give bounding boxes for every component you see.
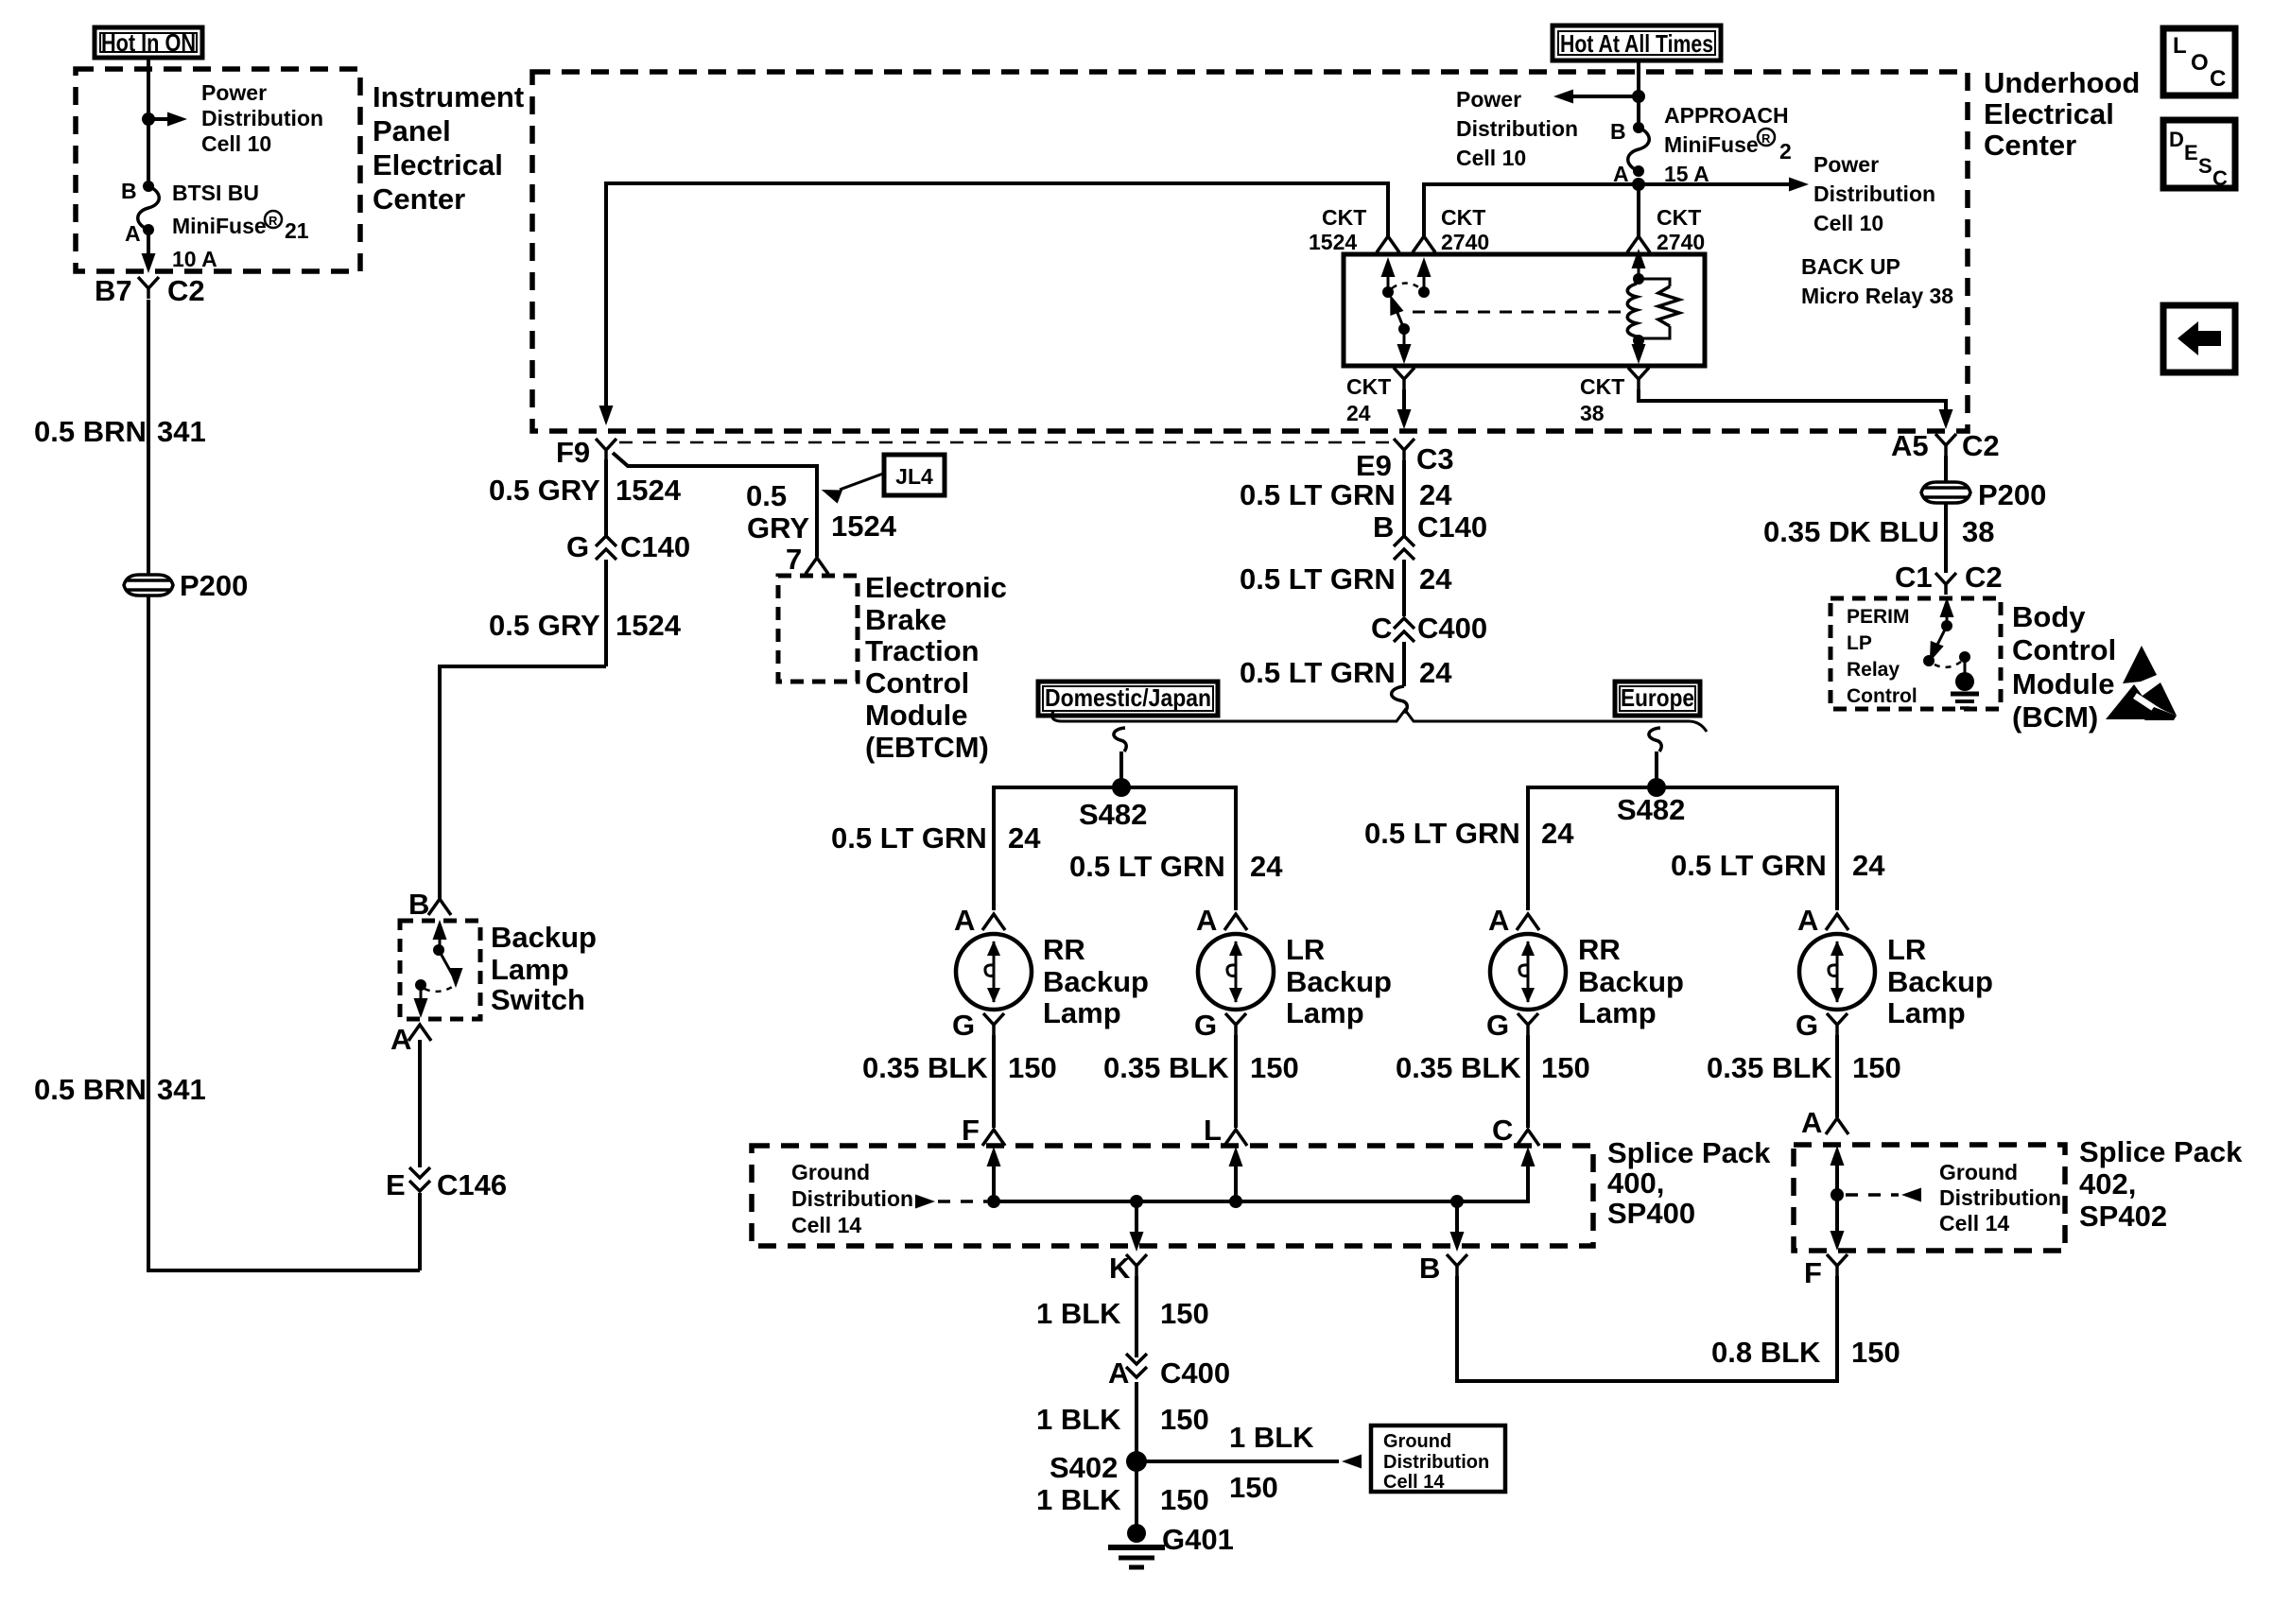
svg-text:Center: Center bbox=[373, 182, 465, 216]
arrow down to pin B bbox=[1450, 1201, 1465, 1252]
svg-text:2: 2 bbox=[1779, 139, 1792, 164]
svg-text:Backup: Backup bbox=[1043, 965, 1149, 998]
svg-text:0.5 LT GRN: 0.5 LT GRN bbox=[1364, 817, 1520, 850]
svg-text:24: 24 bbox=[1419, 478, 1452, 511]
svg-text:0.5 LT GRN: 0.5 LT GRN bbox=[1671, 849, 1827, 882]
svg-text:2740: 2740 bbox=[1657, 230, 1705, 254]
svg-text:341: 341 bbox=[157, 415, 206, 448]
pass-through grommet P200 (right) bbox=[1921, 478, 2046, 511]
svg-text:Cell 10: Cell 10 bbox=[1813, 211, 1883, 235]
svg-text:Distribution: Distribution bbox=[1813, 181, 1935, 206]
svg-text:G: G bbox=[1486, 1009, 1509, 1042]
Domestic drop squiggle to S482 bbox=[1114, 728, 1126, 752]
svg-text:Cell 10: Cell 10 bbox=[1456, 146, 1526, 170]
wire fuse A to CKT2740 relay pin (left branch) bbox=[1424, 184, 1639, 236]
arrow to Power Distribution Cell 10 bbox=[148, 112, 187, 127]
PERIM LP Relay Control label bbox=[1847, 606, 1917, 707]
JL4 option flag box bbox=[884, 455, 945, 495]
wire label 0.35 DK BLU 38 bbox=[1763, 515, 1994, 548]
svg-text:1 BLK: 1 BLK bbox=[1229, 1421, 1314, 1454]
svg-text:Center: Center bbox=[1984, 129, 2076, 162]
svg-text:B: B bbox=[408, 888, 429, 921]
Ground Distribution Cell 14 label (SP400) bbox=[791, 1160, 913, 1237]
svg-text:A: A bbox=[390, 1023, 411, 1056]
svg-text:G: G bbox=[1796, 1009, 1818, 1042]
svg-text:P200: P200 bbox=[180, 569, 248, 602]
wire C140 down to switch branch corner bbox=[604, 560, 608, 666]
junction node bus at F bbox=[987, 1195, 1000, 1208]
wire E9 to C140 bbox=[1402, 460, 1406, 536]
wire CKT24 to E9 bbox=[1397, 389, 1412, 429]
svg-text:CKT: CKT bbox=[1657, 205, 1701, 230]
Hot In ON header box bbox=[95, 27, 202, 58]
svg-text:C2: C2 bbox=[1965, 561, 2003, 594]
svg-text:24: 24 bbox=[1346, 401, 1371, 425]
svg-text:PERIM: PERIM bbox=[1847, 606, 1910, 628]
arrow left to Power Distribution Cell 10 bbox=[1553, 90, 1639, 104]
Domestic/Japan option flag box bbox=[1038, 682, 1218, 716]
svg-text:A: A bbox=[1108, 1356, 1129, 1390]
svg-text:Lamp: Lamp bbox=[1286, 996, 1364, 1029]
pin A chevron LR backup lamp europe bbox=[1797, 904, 1848, 937]
svg-text:400,: 400, bbox=[1607, 1166, 1664, 1200]
svg-text:150: 150 bbox=[1229, 1471, 1278, 1504]
svg-text:C400: C400 bbox=[1160, 1356, 1230, 1390]
Domestic S482 bus to lamps bbox=[994, 787, 1236, 910]
Power Distribution Cell 10 label (IP) bbox=[201, 80, 323, 156]
wire break squiggle into split bbox=[1392, 686, 1408, 713]
back arrow box bbox=[2163, 305, 2235, 372]
Splice Pack 400 dashed box bbox=[752, 1146, 1593, 1246]
svg-text:E: E bbox=[2184, 141, 2198, 164]
svg-text:P200: P200 bbox=[1978, 478, 2046, 511]
svg-text:0.5 GRY: 0.5 GRY bbox=[489, 609, 600, 642]
Backup Lamp Switch dashed box bbox=[400, 921, 480, 1019]
Backup Lamp Switch label bbox=[491, 921, 597, 1016]
svg-text:Backup: Backup bbox=[1887, 965, 1993, 998]
svg-text:LR: LR bbox=[1286, 933, 1325, 966]
junction node below fuse A bbox=[1632, 178, 1645, 191]
svg-text:Instrument: Instrument bbox=[373, 80, 524, 113]
pin F chevron below SP402 bbox=[1804, 1254, 1848, 1289]
wire fuse A to connector C2 bbox=[142, 230, 156, 273]
Power Distribution Cell 10 label (UEC left) bbox=[1456, 87, 1578, 170]
svg-text:1 BLK: 1 BLK bbox=[1036, 1403, 1121, 1436]
svg-text:Electrical: Electrical bbox=[373, 148, 503, 181]
svg-text:C: C bbox=[2212, 166, 2228, 190]
svg-text:CKT: CKT bbox=[1441, 205, 1485, 230]
svg-text:Ground: Ground bbox=[791, 1160, 870, 1184]
wire K down to C400 bbox=[1135, 1276, 1138, 1357]
splice S482 (Europe) bbox=[1617, 778, 1685, 826]
Underhood Electrical Center dashed box bbox=[532, 72, 1968, 431]
arrow up to pin C bbox=[1521, 1147, 1536, 1166]
wire C400 to S402 bbox=[1135, 1382, 1138, 1530]
svg-text:24: 24 bbox=[1419, 656, 1452, 689]
svg-text:Switch: Switch bbox=[491, 983, 585, 1016]
svg-text:A: A bbox=[954, 904, 975, 937]
wire label 0.5 GRY 1524 (JL4 branch) bbox=[746, 479, 897, 544]
Europe option flag box bbox=[1615, 682, 1700, 716]
Europe S482 bus to lamps bbox=[1528, 787, 1837, 910]
pin F chevron splice pack 400 bbox=[962, 1114, 1005, 1147]
splice bus SP400 bbox=[994, 1157, 1528, 1201]
svg-text:341: 341 bbox=[157, 1073, 206, 1106]
svg-text:38: 38 bbox=[1962, 515, 1994, 548]
svg-text:Panel: Panel bbox=[373, 114, 451, 147]
wire label 0.5 LT GRN 24 (LR domestic) bbox=[1069, 850, 1283, 883]
svg-text:Micro Relay 38: Micro Relay 38 bbox=[1801, 284, 1953, 308]
svg-text:Ground: Ground bbox=[1383, 1431, 1451, 1452]
svg-text:Backup: Backup bbox=[1578, 965, 1684, 998]
Ground Distribution Cell 14 label (SP402) bbox=[1939, 1160, 2061, 1235]
Splice Pack 402 SP402 label bbox=[2079, 1135, 2243, 1233]
LR Backup Lamp (domestic) bbox=[1198, 933, 1392, 1029]
connector F9 at UEC bbox=[556, 436, 616, 469]
svg-text:L: L bbox=[2173, 33, 2187, 59]
svg-text:Backup: Backup bbox=[491, 921, 597, 954]
svg-text:1524: 1524 bbox=[616, 609, 682, 642]
svg-text:0.35 BLK: 0.35 BLK bbox=[1707, 1051, 1832, 1084]
svg-text:0.8 BLK: 0.8 BLK bbox=[1711, 1336, 1821, 1369]
relay output pin CKT38 bbox=[1580, 368, 1649, 425]
fuse BTSI BU MiniFuse 21 label bbox=[172, 181, 309, 271]
svg-text:F9: F9 bbox=[556, 436, 590, 469]
svg-text:E9: E9 bbox=[1356, 449, 1392, 482]
svg-text:0.5 LT GRN: 0.5 LT GRN bbox=[1240, 562, 1396, 596]
wire C140 to C400 bbox=[1402, 560, 1406, 616]
svg-text:Relay: Relay bbox=[1847, 659, 1900, 681]
svg-text:C: C bbox=[1492, 1114, 1513, 1147]
wire from Hot In ON to fuse B bbox=[147, 58, 150, 185]
wire label 1 BLK 150 (middle) bbox=[1036, 1403, 1209, 1436]
svg-text:S482: S482 bbox=[1079, 798, 1147, 831]
svg-text:0.5 GRY: 0.5 GRY bbox=[489, 474, 600, 507]
arrow down to pin K bbox=[1130, 1201, 1144, 1252]
connector A5 C2 bbox=[1891, 429, 2000, 462]
wire Europe drop to splice S482 bbox=[1655, 752, 1658, 787]
svg-text:21: 21 bbox=[285, 218, 309, 243]
svg-text:RR: RR bbox=[1043, 933, 1085, 966]
Body Control Module dashed box bbox=[1831, 598, 2001, 709]
svg-text:SP402: SP402 bbox=[2079, 1200, 2167, 1233]
svg-text:C400: C400 bbox=[1417, 612, 1487, 645]
svg-text:Power: Power bbox=[1813, 152, 1879, 177]
wire corner up to connector C146 bbox=[418, 1193, 422, 1270]
svg-text:C2: C2 bbox=[167, 274, 205, 307]
svg-text:24: 24 bbox=[1008, 821, 1041, 855]
pin 7 chevron EBTCM bbox=[786, 543, 828, 576]
connector E9 C3 bbox=[1356, 439, 1454, 482]
svg-text:A: A bbox=[125, 221, 141, 246]
svg-text:S482: S482 bbox=[1617, 793, 1685, 826]
RR Backup Lamp (europe) bbox=[1490, 933, 1684, 1029]
ground G401 bbox=[1108, 1523, 1234, 1567]
svg-text:150: 150 bbox=[1160, 1483, 1209, 1516]
svg-text:Cell 14: Cell 14 bbox=[1939, 1211, 2009, 1235]
svg-text:Hot In ON: Hot In ON bbox=[101, 28, 196, 57]
arrow up to pin F bbox=[987, 1147, 1001, 1201]
branch wire F9 to EBTCM pin 7 bbox=[613, 453, 817, 557]
option split bus Domestic/Europe bbox=[1052, 710, 1707, 732]
arrow to ground distribution (SP400) bbox=[915, 1195, 987, 1209]
svg-text:G: G bbox=[952, 1009, 975, 1042]
svg-text:24: 24 bbox=[1419, 562, 1452, 596]
wire P200 to C1 (0.35 DK BLU 38) bbox=[1944, 503, 1948, 573]
svg-text:0.5 LT GRN: 0.5 LT GRN bbox=[1240, 656, 1396, 689]
junction node bus at L bbox=[1229, 1195, 1242, 1208]
wire label 1 BLK 150 (lower) bbox=[1036, 1483, 1209, 1516]
Splice Pack 402 dashed box bbox=[1794, 1145, 2065, 1251]
svg-text:0.5 BRN: 0.5 BRN bbox=[34, 415, 147, 448]
wire label 0.5 GRY 1524 (lower) bbox=[489, 609, 682, 642]
svg-text:MiniFuse: MiniFuse bbox=[1664, 132, 1759, 157]
BCM internal ground bbox=[1951, 657, 1979, 708]
svg-text:150: 150 bbox=[1541, 1051, 1590, 1084]
pin G chevron LR lamp domestic bbox=[1194, 1009, 1246, 1042]
pin G chevron RR lamp domestic bbox=[952, 1009, 1004, 1042]
splice S482 (Domestic) bbox=[1079, 778, 1147, 831]
svg-text:A: A bbox=[1488, 904, 1509, 937]
wire label 0.8 BLK 150 bbox=[1711, 1336, 1900, 1369]
wire label 0.5 LT GRN 24 (top) bbox=[1240, 478, 1452, 511]
svg-text:Control: Control bbox=[865, 666, 969, 700]
svg-text:Hot At All Times: Hot At All Times bbox=[1560, 29, 1713, 58]
svg-text:0.5 LT GRN: 0.5 LT GRN bbox=[831, 821, 987, 855]
wire label 1 BLK 150 (branch) bbox=[1229, 1421, 1314, 1504]
wire LR europe lamp to splice pack A bbox=[1835, 1035, 1839, 1117]
wire C400 to split bbox=[1402, 642, 1406, 686]
svg-text:A: A bbox=[1801, 1106, 1822, 1139]
svg-text:Cell 14: Cell 14 bbox=[791, 1213, 861, 1237]
svg-text:C140: C140 bbox=[620, 530, 690, 563]
svg-text:K: K bbox=[1109, 1252, 1131, 1285]
svg-text:150: 150 bbox=[1851, 1336, 1900, 1369]
Hot At All Times header box bbox=[1553, 26, 1721, 60]
pin A chevron of backup lamp switch bbox=[390, 1023, 431, 1056]
fuse APPROACH MiniFuse 2 label bbox=[1664, 103, 1792, 186]
svg-text:Power: Power bbox=[201, 80, 267, 105]
wire P200 down to bottom corner bbox=[148, 596, 420, 1270]
CKT 1524 label bbox=[1309, 205, 1366, 254]
svg-text:24: 24 bbox=[1852, 849, 1885, 882]
DESC reference box bbox=[2163, 120, 2235, 190]
svg-text:L: L bbox=[1204, 1114, 1222, 1147]
svg-text:B: B bbox=[1419, 1252, 1440, 1285]
svg-text:Module: Module bbox=[2012, 667, 2115, 700]
Instrument Panel Electrical Center label bbox=[373, 80, 524, 216]
wire label 0.5 LT GRN 24 (LR europe) bbox=[1671, 849, 1885, 882]
svg-text:S: S bbox=[2198, 154, 2212, 178]
svg-text:Power: Power bbox=[1456, 87, 1521, 112]
wire A5 to P200 bbox=[1944, 456, 1948, 482]
connector B7 C2 bbox=[95, 274, 205, 307]
svg-text:0.5 BRN: 0.5 BRN bbox=[34, 1073, 147, 1106]
Ground Distribution Cell 14 box (solid) bbox=[1371, 1425, 1505, 1493]
relay fixed contact pin 1524 bbox=[1381, 257, 1396, 298]
svg-text:Electronic: Electronic bbox=[865, 571, 1007, 604]
wire SP402 F to SP400 B (0.8 BLK 150) bbox=[1457, 1276, 1837, 1381]
wire C146 up to switch pin A bbox=[418, 1040, 422, 1167]
pin G chevron LR lamp europe bbox=[1796, 1009, 1848, 1042]
arrow into F9 bbox=[599, 406, 614, 425]
svg-text:A: A bbox=[1196, 904, 1217, 937]
wire S402 to ground distribution bbox=[1136, 1455, 1362, 1469]
arrow up to pin L bbox=[1229, 1147, 1243, 1201]
JL4 pointer arrow bbox=[819, 474, 883, 504]
wire label 0.35 BLK 150 (LR europe) bbox=[1707, 1051, 1901, 1084]
wire LR domestic lamp to splice pack L bbox=[1234, 1035, 1238, 1128]
svg-text:Underhood: Underhood bbox=[1984, 66, 2140, 99]
fuse APPROACH MiniFuse 2 bbox=[1628, 122, 1650, 177]
svg-text:B: B bbox=[1610, 119, 1626, 144]
Europe drop squiggle to S482 bbox=[1649, 728, 1661, 752]
relay pin chevron CKT2740 right bbox=[1627, 236, 1650, 252]
svg-text:24: 24 bbox=[1250, 850, 1283, 883]
svg-text:Cell 10: Cell 10 bbox=[201, 131, 271, 156]
svg-text:G: G bbox=[1194, 1009, 1217, 1042]
svg-text:Traction: Traction bbox=[865, 634, 980, 667]
svg-text:BACK UP: BACK UP bbox=[1801, 254, 1900, 279]
RR Backup Lamp (domestic) bbox=[956, 933, 1149, 1029]
svg-text:150: 150 bbox=[1250, 1051, 1299, 1084]
svg-text:Cell 14: Cell 14 bbox=[1383, 1472, 1445, 1493]
svg-text:0.35 BLK: 0.35 BLK bbox=[862, 1051, 988, 1084]
BCM driver contacts bbox=[1923, 597, 1970, 667]
svg-text:D: D bbox=[2169, 128, 2184, 151]
svg-text:APPROACH: APPROACH bbox=[1664, 103, 1789, 128]
dashed actuation line to coil bbox=[1413, 311, 1622, 314]
pin K chevron below SP400 bbox=[1109, 1252, 1147, 1285]
svg-text:150: 150 bbox=[1852, 1051, 1901, 1084]
Instrument Panel Electrical Center dashed box bbox=[76, 69, 360, 271]
svg-text:(BCM): (BCM) bbox=[2012, 700, 2098, 734]
arrow to ground distribution (SP402) bbox=[1846, 1188, 1921, 1202]
svg-text:Lamp: Lamp bbox=[491, 953, 569, 986]
svg-text:Lamp: Lamp bbox=[1887, 996, 1966, 1029]
svg-text:LP: LP bbox=[1847, 632, 1872, 654]
svg-text:38: 38 bbox=[1580, 401, 1605, 425]
svg-text:Brake: Brake bbox=[865, 603, 946, 636]
LOC reference box bbox=[2163, 28, 2235, 95]
EBTCM label bbox=[865, 571, 1007, 764]
splice S402 bbox=[1050, 1451, 1147, 1484]
wire C2 to P200 (0.5 BRN 341) bbox=[147, 300, 150, 575]
svg-text:R: R bbox=[269, 214, 278, 228]
svg-text:Electrical: Electrical bbox=[1984, 97, 2114, 130]
svg-text:0.35 BLK: 0.35 BLK bbox=[1396, 1051, 1521, 1084]
svg-text:10 A: 10 A bbox=[172, 247, 217, 271]
ESD sensitive device logo bbox=[2106, 646, 2177, 720]
svg-text:1524: 1524 bbox=[1309, 230, 1357, 254]
svg-text:Backup: Backup bbox=[1286, 965, 1392, 998]
wire switch B up and over to F9 branch bbox=[440, 666, 606, 899]
svg-text:RR: RR bbox=[1578, 933, 1621, 966]
svg-text:Lamp: Lamp bbox=[1043, 996, 1121, 1029]
svg-text:1524: 1524 bbox=[831, 510, 897, 543]
svg-text:150: 150 bbox=[1160, 1297, 1209, 1330]
relay fixed contact pin 2740 bbox=[1417, 257, 1431, 298]
svg-text:24: 24 bbox=[1541, 817, 1574, 850]
CKT 2740 label (right) bbox=[1657, 205, 1705, 254]
wire CKT38 over to A5 bbox=[1639, 389, 1953, 429]
arrow right to Power Distribution Cell 10 bbox=[1639, 178, 1809, 192]
svg-text:SP400: SP400 bbox=[1607, 1197, 1695, 1230]
Splice Pack 400 SP400 label bbox=[1607, 1136, 1771, 1230]
wire Domestic drop to splice S482 bbox=[1119, 752, 1123, 787]
svg-text:402,: 402, bbox=[2079, 1167, 2136, 1201]
svg-text:C1: C1 bbox=[1895, 561, 1933, 594]
connector E C146 bbox=[386, 1167, 507, 1201]
Underhood Electrical Center label bbox=[1984, 66, 2140, 162]
wire label 0.5 LT GRN 24 (RR europe) bbox=[1364, 817, 1574, 850]
pass-through grommet P200 (left) bbox=[124, 569, 248, 602]
relay arm output to CKT24 pin bbox=[1397, 329, 1412, 364]
fuse BTSI BU MiniFuse 21 bbox=[138, 181, 160, 235]
wire label 0.5 GRY 1524 (upper) bbox=[489, 474, 682, 507]
pin B chevron of backup lamp switch bbox=[408, 888, 451, 921]
connector A C400 (ground) bbox=[1108, 1354, 1230, 1390]
wire F9 down to C140 bbox=[604, 459, 608, 536]
svg-text:R: R bbox=[1761, 131, 1771, 146]
wire label 0.5 LT GRN 24 (middle) bbox=[1240, 562, 1452, 596]
wire label 1 BLK 150 (upper) bbox=[1036, 1297, 1209, 1330]
svg-text:BTSI BU: BTSI BU bbox=[172, 181, 259, 205]
svg-text:Distribution: Distribution bbox=[1456, 116, 1578, 141]
wire Hot At All Times to fuse B bbox=[1637, 60, 1640, 127]
svg-text:CKT: CKT bbox=[1580, 374, 1624, 399]
svg-text:150: 150 bbox=[1008, 1051, 1057, 1084]
svg-text:B: B bbox=[1373, 510, 1394, 544]
svg-text:C140: C140 bbox=[1417, 510, 1487, 544]
wire RR domestic lamp to splice pack F bbox=[992, 1035, 996, 1128]
wire RR europe lamp to splice pack C bbox=[1526, 1035, 1530, 1128]
LR Backup Lamp (europe) bbox=[1799, 933, 1993, 1029]
svg-text:Module: Module bbox=[865, 699, 968, 732]
svg-text:Control: Control bbox=[1847, 685, 1917, 707]
svg-text:Distribution: Distribution bbox=[1383, 1452, 1489, 1473]
svg-text:C2: C2 bbox=[1962, 429, 2000, 462]
svg-text:C3: C3 bbox=[1416, 442, 1454, 475]
svg-text:Lamp: Lamp bbox=[1578, 996, 1657, 1029]
connector G C140 bbox=[566, 530, 690, 563]
svg-text:Distribution: Distribution bbox=[1939, 1185, 2061, 1210]
junction node bus at B bbox=[1450, 1195, 1464, 1208]
wire label 0.5 BRN 341 (upper) bbox=[34, 415, 206, 448]
pin A chevron splice pack 402 bbox=[1801, 1106, 1848, 1139]
svg-text:Distribution: Distribution bbox=[201, 106, 323, 130]
svg-text:G: G bbox=[566, 530, 589, 563]
svg-text:150: 150 bbox=[1160, 1403, 1209, 1436]
svg-text:B7: B7 bbox=[95, 274, 132, 307]
svg-text:7: 7 bbox=[786, 543, 802, 576]
svg-text:C: C bbox=[1371, 612, 1392, 645]
svg-text:C146: C146 bbox=[437, 1168, 507, 1201]
junction node on ignition feed bbox=[142, 112, 155, 126]
svg-text:Splice Pack: Splice Pack bbox=[2079, 1135, 2243, 1168]
svg-text:0.35 DK BLU: 0.35 DK BLU bbox=[1763, 515, 1939, 548]
svg-text:S402: S402 bbox=[1050, 1451, 1118, 1484]
svg-text:CKT: CKT bbox=[1346, 374, 1391, 399]
wire label 0.35 BLK 150 (RR europe) bbox=[1396, 1051, 1590, 1084]
relay output pin CKT24 bbox=[1346, 368, 1414, 425]
svg-text:Ground: Ground bbox=[1939, 1160, 2018, 1184]
svg-text:C: C bbox=[2210, 66, 2226, 92]
svg-text:G401: G401 bbox=[1162, 1523, 1234, 1556]
junction node bus at K bbox=[1130, 1195, 1143, 1208]
svg-text:JL4: JL4 bbox=[895, 464, 933, 489]
svg-text:E: E bbox=[386, 1168, 406, 1201]
